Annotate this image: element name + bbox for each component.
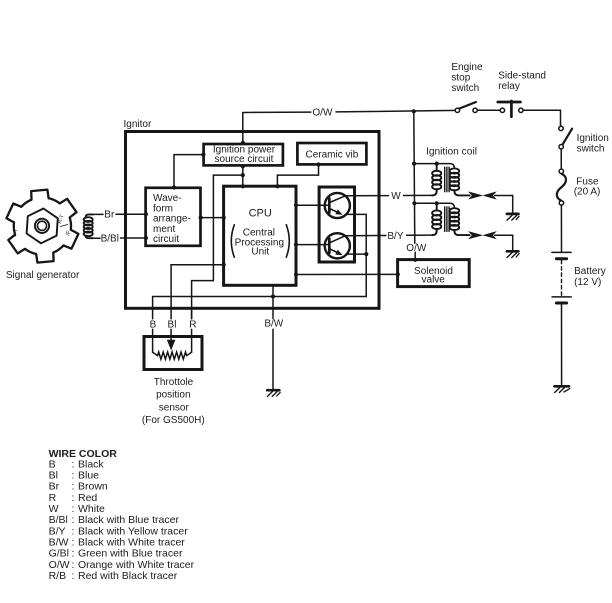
wire R from throttle sensor up to power feed	[192, 175, 241, 352]
svg-text::: :	[72, 458, 75, 470]
wiper arrow	[167, 340, 176, 351]
svg-text:R/B: R/B	[49, 570, 67, 582]
ground B/W	[267, 390, 280, 396]
wire waveform circuit to CPU	[201, 217, 224, 219]
rotor label L-T	[12, 227, 20, 237]
svg-text:Br: Br	[104, 210, 115, 221]
svg-text::: :	[72, 570, 75, 582]
wire Q2 emitter	[346, 253, 366, 255]
wire battery to ground	[561, 305, 563, 385]
battery (12 V)	[552, 252, 571, 303]
wire ignition switch to fuse	[560, 149, 562, 169]
junction dot T1 O/W	[412, 162, 416, 166]
svg-text:O/W: O/W	[312, 108, 333, 119]
junction dot T2 primary lead	[435, 201, 439, 205]
wire emitter bus to B line	[153, 254, 367, 296]
svg-text:sensor: sensor	[159, 402, 190, 413]
svg-text:valve: valve	[422, 275, 446, 286]
svg-text:B/W: B/W	[264, 319, 283, 330]
fuse (20 A)	[557, 169, 566, 205]
svg-text:R-T: R-T	[57, 213, 66, 224]
svg-text:(For GS500H): (For GS500H)	[142, 415, 205, 426]
svg-text:circuit: circuit	[153, 234, 179, 245]
svg-text:Black with Blue tracer: Black with Blue tracer	[78, 514, 179, 526]
wire B/Y from Q2 collector to ignition coil	[345, 235, 386, 237]
node Br at waveform box	[144, 212, 148, 216]
node B/W joins B	[271, 294, 275, 298]
wire B/Bl from pickup coil to waveform circuit	[93, 237, 101, 239]
throttle sensor caption	[142, 377, 205, 426]
svg-text:B/Bl: B/Bl	[49, 514, 68, 526]
svg-text:R: R	[189, 320, 196, 331]
svg-text:Throttole: Throttole	[154, 377, 194, 388]
ignition power source circuit box	[204, 144, 283, 165]
svg-text:White: White	[78, 503, 105, 515]
svg-text:W: W	[391, 191, 401, 202]
svg-text:Red with Black tracer: Red with Black tracer	[78, 570, 178, 582]
node at power box top	[241, 141, 245, 145]
wire Br from pickup coil to waveform circuit	[93, 213, 104, 215]
svg-text:source circuit: source circuit	[215, 154, 274, 165]
signal generator hub nut	[27, 209, 58, 244]
igniter enclosure box	[126, 132, 380, 309]
node B/Bl at waveform box	[144, 236, 148, 240]
wire power box to CPU	[242, 165, 244, 186]
svg-text::: :	[72, 470, 75, 482]
node at solenoid top	[413, 258, 417, 262]
ignition switch	[559, 126, 572, 149]
svg-text:Unit: Unit	[251, 247, 269, 258]
svg-text:Side-stand: Side-stand	[498, 71, 546, 82]
svg-text:Red: Red	[78, 492, 97, 504]
ground plug 2	[507, 251, 519, 257]
svg-text::: :	[72, 492, 75, 504]
wire fuse to battery	[560, 205, 562, 252]
ignition coil T2 secondary winding	[450, 208, 470, 235]
svg-text:Fuse: Fuse	[576, 176, 599, 187]
wire Bl from CPU to throttle sensor wiper	[171, 265, 224, 319]
svg-text:G/Bl: G/Bl	[49, 548, 69, 560]
svg-text::: :	[72, 559, 75, 571]
resistor element	[153, 352, 192, 355]
ceramic vibrator box	[297, 143, 366, 164]
svg-text:(20 A): (20 A)	[574, 187, 601, 198]
svg-text:B: B	[150, 320, 157, 331]
svg-text:Bl: Bl	[168, 320, 177, 331]
CPU parentheses	[231, 225, 234, 257]
waveform arrangement circuit box	[146, 188, 201, 246]
svg-text:Ceramic vib: Ceramic vib	[306, 149, 359, 160]
wire R stub above label	[191, 309, 193, 319]
rotor label R-T/F	[57, 213, 72, 236]
transistor Q2	[325, 233, 350, 258]
wire W from Q1 collector to ignition coil	[345, 195, 388, 197]
svg-text:stop: stop	[451, 72, 470, 83]
wire plug 2 to ground	[512, 235, 514, 250]
wire CPU to Q2 base	[296, 244, 329, 246]
wire relay to ignition switch corner	[523, 110, 560, 126]
svg-text::: :	[72, 503, 75, 515]
svg-text:Signal generator: Signal generator	[6, 270, 80, 281]
spark plug gap plug 1	[470, 192, 513, 198]
svg-text:Orange with White tracer: Orange with White tracer	[78, 559, 195, 571]
svg-text:CPU: CPU	[249, 208, 272, 220]
svg-text::: :	[72, 548, 75, 560]
signal generator shaft ring	[35, 219, 49, 233]
wire B down to throttle sensor	[152, 297, 154, 319]
node emitter join	[364, 252, 368, 256]
throttle position sensor box	[144, 337, 202, 370]
junction dot T1 primary lead	[435, 162, 439, 166]
svg-text:Bl: Bl	[49, 470, 58, 482]
svg-text:L-T: L-T	[12, 227, 20, 237]
svg-text:Blue: Blue	[78, 470, 99, 482]
svg-text:Ignitor: Ignitor	[124, 119, 152, 130]
wire engine stop switch to side-stand relay	[477, 109, 500, 111]
node O/W drop	[412, 109, 416, 113]
svg-text:Black: Black	[78, 458, 104, 470]
svg-text:B/Y: B/Y	[49, 525, 66, 537]
wire CPU to solenoid valve	[296, 273, 398, 275]
svg-text:B: B	[49, 458, 56, 470]
wire O/W drop to ignition power source circuit	[242, 113, 244, 145]
svg-text:B/Bl: B/Bl	[101, 233, 119, 244]
engine stop switch	[455, 102, 477, 113]
ignition coil T2 primary winding	[432, 203, 441, 235]
wire power box to waveform circuit	[174, 155, 204, 188]
node at CPU top	[241, 184, 245, 188]
svg-text:switch: switch	[577, 143, 605, 154]
wire plug 1 to ground	[512, 196, 514, 213]
svg-text:Green with Blue tracer: Green with Blue tracer	[78, 548, 183, 560]
signal generator rotor gear	[6, 190, 78, 263]
node R join	[241, 173, 245, 177]
ignition coil T1 primary winding	[432, 164, 441, 196]
junction dot T2 O/W	[412, 201, 416, 205]
ignition coil T1 secondary winding	[450, 168, 470, 195]
svg-text:switch: switch	[451, 83, 479, 94]
ignition coil T2 primary top wire	[414, 203, 454, 208]
side-stand relay	[498, 101, 523, 117]
ignition coil T2 core	[445, 207, 449, 232]
transistor Q1	[325, 193, 350, 218]
ignition coil T1 primary top wire	[414, 164, 454, 169]
svg-text:O/W: O/W	[49, 559, 70, 571]
ground battery	[555, 386, 570, 392]
svg-text:Ignition: Ignition	[577, 133, 609, 144]
svg-text:(12 V): (12 V)	[574, 277, 601, 288]
svg-text:Engine: Engine	[451, 62, 483, 73]
pickup coil	[84, 214, 93, 238]
svg-text:Ignition coil: Ignition coil	[426, 147, 477, 158]
svg-text::: :	[72, 514, 75, 526]
CPU box	[224, 186, 296, 285]
ignition coil T1 core	[445, 167, 449, 192]
svg-text:W: W	[49, 503, 59, 515]
svg-text:relay: relay	[498, 81, 520, 92]
svg-text:position: position	[156, 390, 190, 401]
svg-text::: :	[72, 525, 75, 537]
wire CPU to Q1 base	[296, 204, 329, 206]
wire Q1 emitter	[346, 214, 366, 254]
ground plug 1	[507, 214, 519, 220]
transistor unit box	[319, 187, 354, 262]
wire ceramic vib to CPU	[277, 164, 318, 186]
spark plug gap plug 2	[470, 232, 513, 238]
wire color legend	[49, 448, 195, 582]
svg-text:R: R	[49, 492, 57, 504]
svg-text:Battery: Battery	[574, 266, 606, 277]
wire O/W vertical to coils and solenoid	[414, 111, 415, 243]
wire B/W from CPU bottom to ground	[272, 286, 274, 389]
svg-text:B/Y: B/Y	[387, 231, 403, 242]
solenoid valve box	[398, 260, 470, 287]
svg-text:O/W: O/W	[406, 243, 427, 254]
svg-text:Black with Yellow tracer: Black with Yellow tracer	[78, 525, 188, 537]
wire O/W top feed	[243, 111, 311, 113]
